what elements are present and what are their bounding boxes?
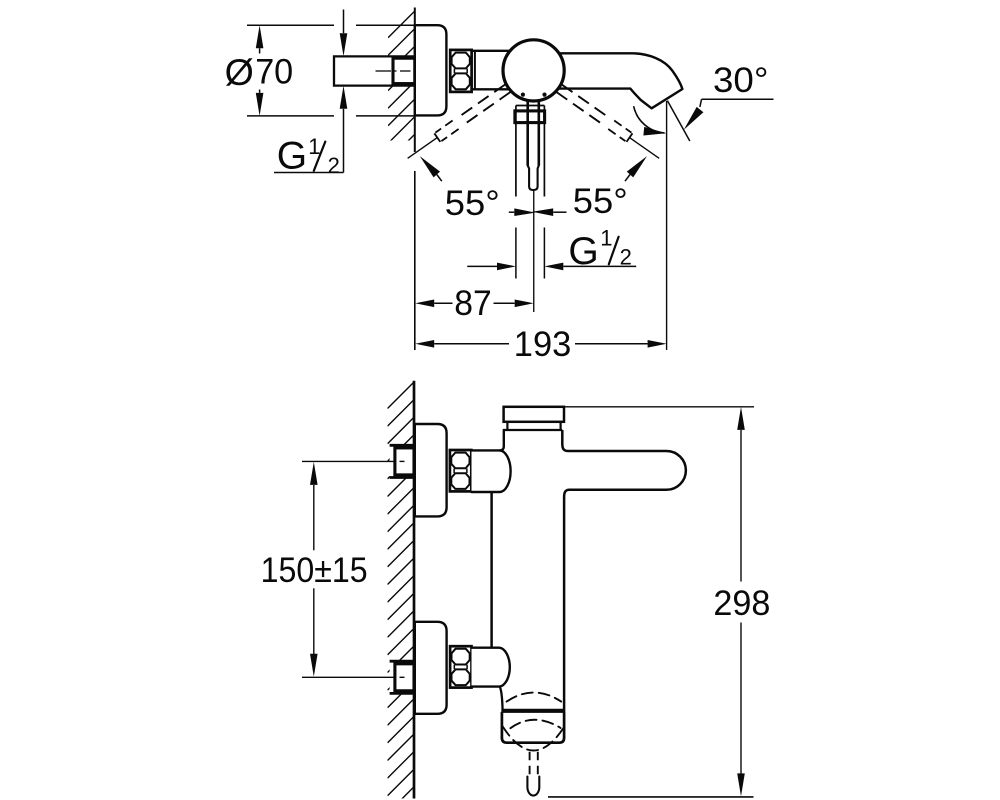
svg-text:2: 2	[620, 245, 632, 270]
G 1/2 extension ticks (lever end)	[515, 228, 517, 279]
dome screw dots	[521, 93, 525, 97]
spout collar (side view)	[502, 713, 564, 743]
pipe centerline (top view)	[376, 70, 392, 72]
lever stem (top view)	[526, 102, 529, 166]
cartridge cap (side view)	[504, 407, 564, 422]
upper escutcheon (side view)	[415, 424, 447, 516]
lever collar (top view)	[515, 111, 545, 123]
upper S-union cap	[472, 450, 511, 492]
lower escutcheon (side view)	[415, 622, 447, 714]
svg-text:298: 298	[713, 584, 770, 623]
drip nozzle (hidden, dashed)	[529, 752, 531, 777]
body seam line (top view)	[474, 51, 476, 90]
body left edge between unions	[490, 492, 493, 648]
lower supply stub (side view)	[390, 661, 414, 693]
svg-text:55°: 55°	[445, 184, 500, 223]
hex nut (top view)	[450, 50, 471, 92]
55 deg arrow right	[627, 156, 647, 177]
pipe nipple in wall (top view)	[393, 58, 415, 83]
55 deg boundary line right	[630, 138, 659, 158]
dimension diameter 70	[247, 24, 334, 26]
dashed lever at 55 deg left	[405, 84, 511, 162]
svg-text:G: G	[568, 230, 598, 273]
wall face line (side view)	[413, 381, 416, 799]
G 1/2 dimension arrows	[467, 265, 497, 267]
supply pipe G 1/2 dimension (small)	[343, 10, 345, 34]
cartridge dome circle (top view)	[503, 40, 564, 101]
svg-text:1: 1	[308, 134, 320, 159]
body right edge	[561, 430, 564, 444]
wall hatching (top view)	[388, 11, 415, 196]
svg-text:150±15: 150±15	[261, 551, 368, 590]
30 deg leader and arrow	[702, 98, 774, 100]
spout tube (top view)	[545, 53, 682, 108]
svg-text:1: 1	[600, 226, 612, 251]
hidden spout ball - dashed arcs	[507, 693, 562, 702]
svg-text:2: 2	[328, 153, 340, 178]
dimension 150 plus-minus 15	[310, 462, 318, 485]
spout collar thick line	[501, 709, 564, 713]
lower hex nut (side view)	[450, 646, 471, 687]
upper hex nut (side view)	[450, 450, 471, 491]
dimension 193	[434, 343, 509, 345]
svg-text:Ø: Ø	[225, 51, 254, 93]
lever handle pointing down (top view)	[516, 105, 545, 107]
lever swing centerline (vertical)	[533, 191, 535, 313]
cap step	[506, 422, 508, 430]
body neck below lower union	[500, 687, 503, 711]
svg-text:193: 193	[514, 325, 572, 364]
svg-text:55°: 55°	[573, 182, 628, 221]
spout tip extension line (right)	[666, 101, 668, 350]
55 deg arrow left	[420, 156, 440, 177]
lever handle (side view)	[562, 444, 686, 498]
supply pipe (top view)	[334, 56, 415, 85]
svg-text:70: 70	[255, 52, 293, 91]
lever tip (top view)	[528, 166, 539, 191]
0 deg reference arrows at centerline	[514, 208, 535, 216]
body neck left edge	[500, 430, 504, 450]
svg-text:30°: 30°	[713, 61, 769, 100]
upper supply stub (side view)	[390, 445, 414, 477]
30 deg inclined line at spout tip	[667, 101, 689, 141]
lower pipe centerline + 150 reference line	[302, 676, 396, 678]
faucet body and spout (top view)	[472, 51, 521, 90]
dimension 298	[564, 406, 754, 408]
wall escutcheon (top view)	[415, 25, 447, 115]
svg-text:87: 87	[454, 284, 492, 323]
dimension 87	[434, 302, 452, 304]
svg-text:G: G	[277, 135, 307, 178]
spout rotation arc with arrow	[634, 107, 664, 133]
upper pipe centerline + 150 reference line	[302, 460, 396, 462]
55 deg boundary line left	[408, 138, 437, 158]
wall face line (top view, also extension line for 87/193)	[414, 8, 416, 153]
dashed lever at 55 deg right	[556, 84, 662, 162]
lower S-union cap	[472, 648, 510, 687]
wall hatching (side view)	[388, 382, 415, 800]
